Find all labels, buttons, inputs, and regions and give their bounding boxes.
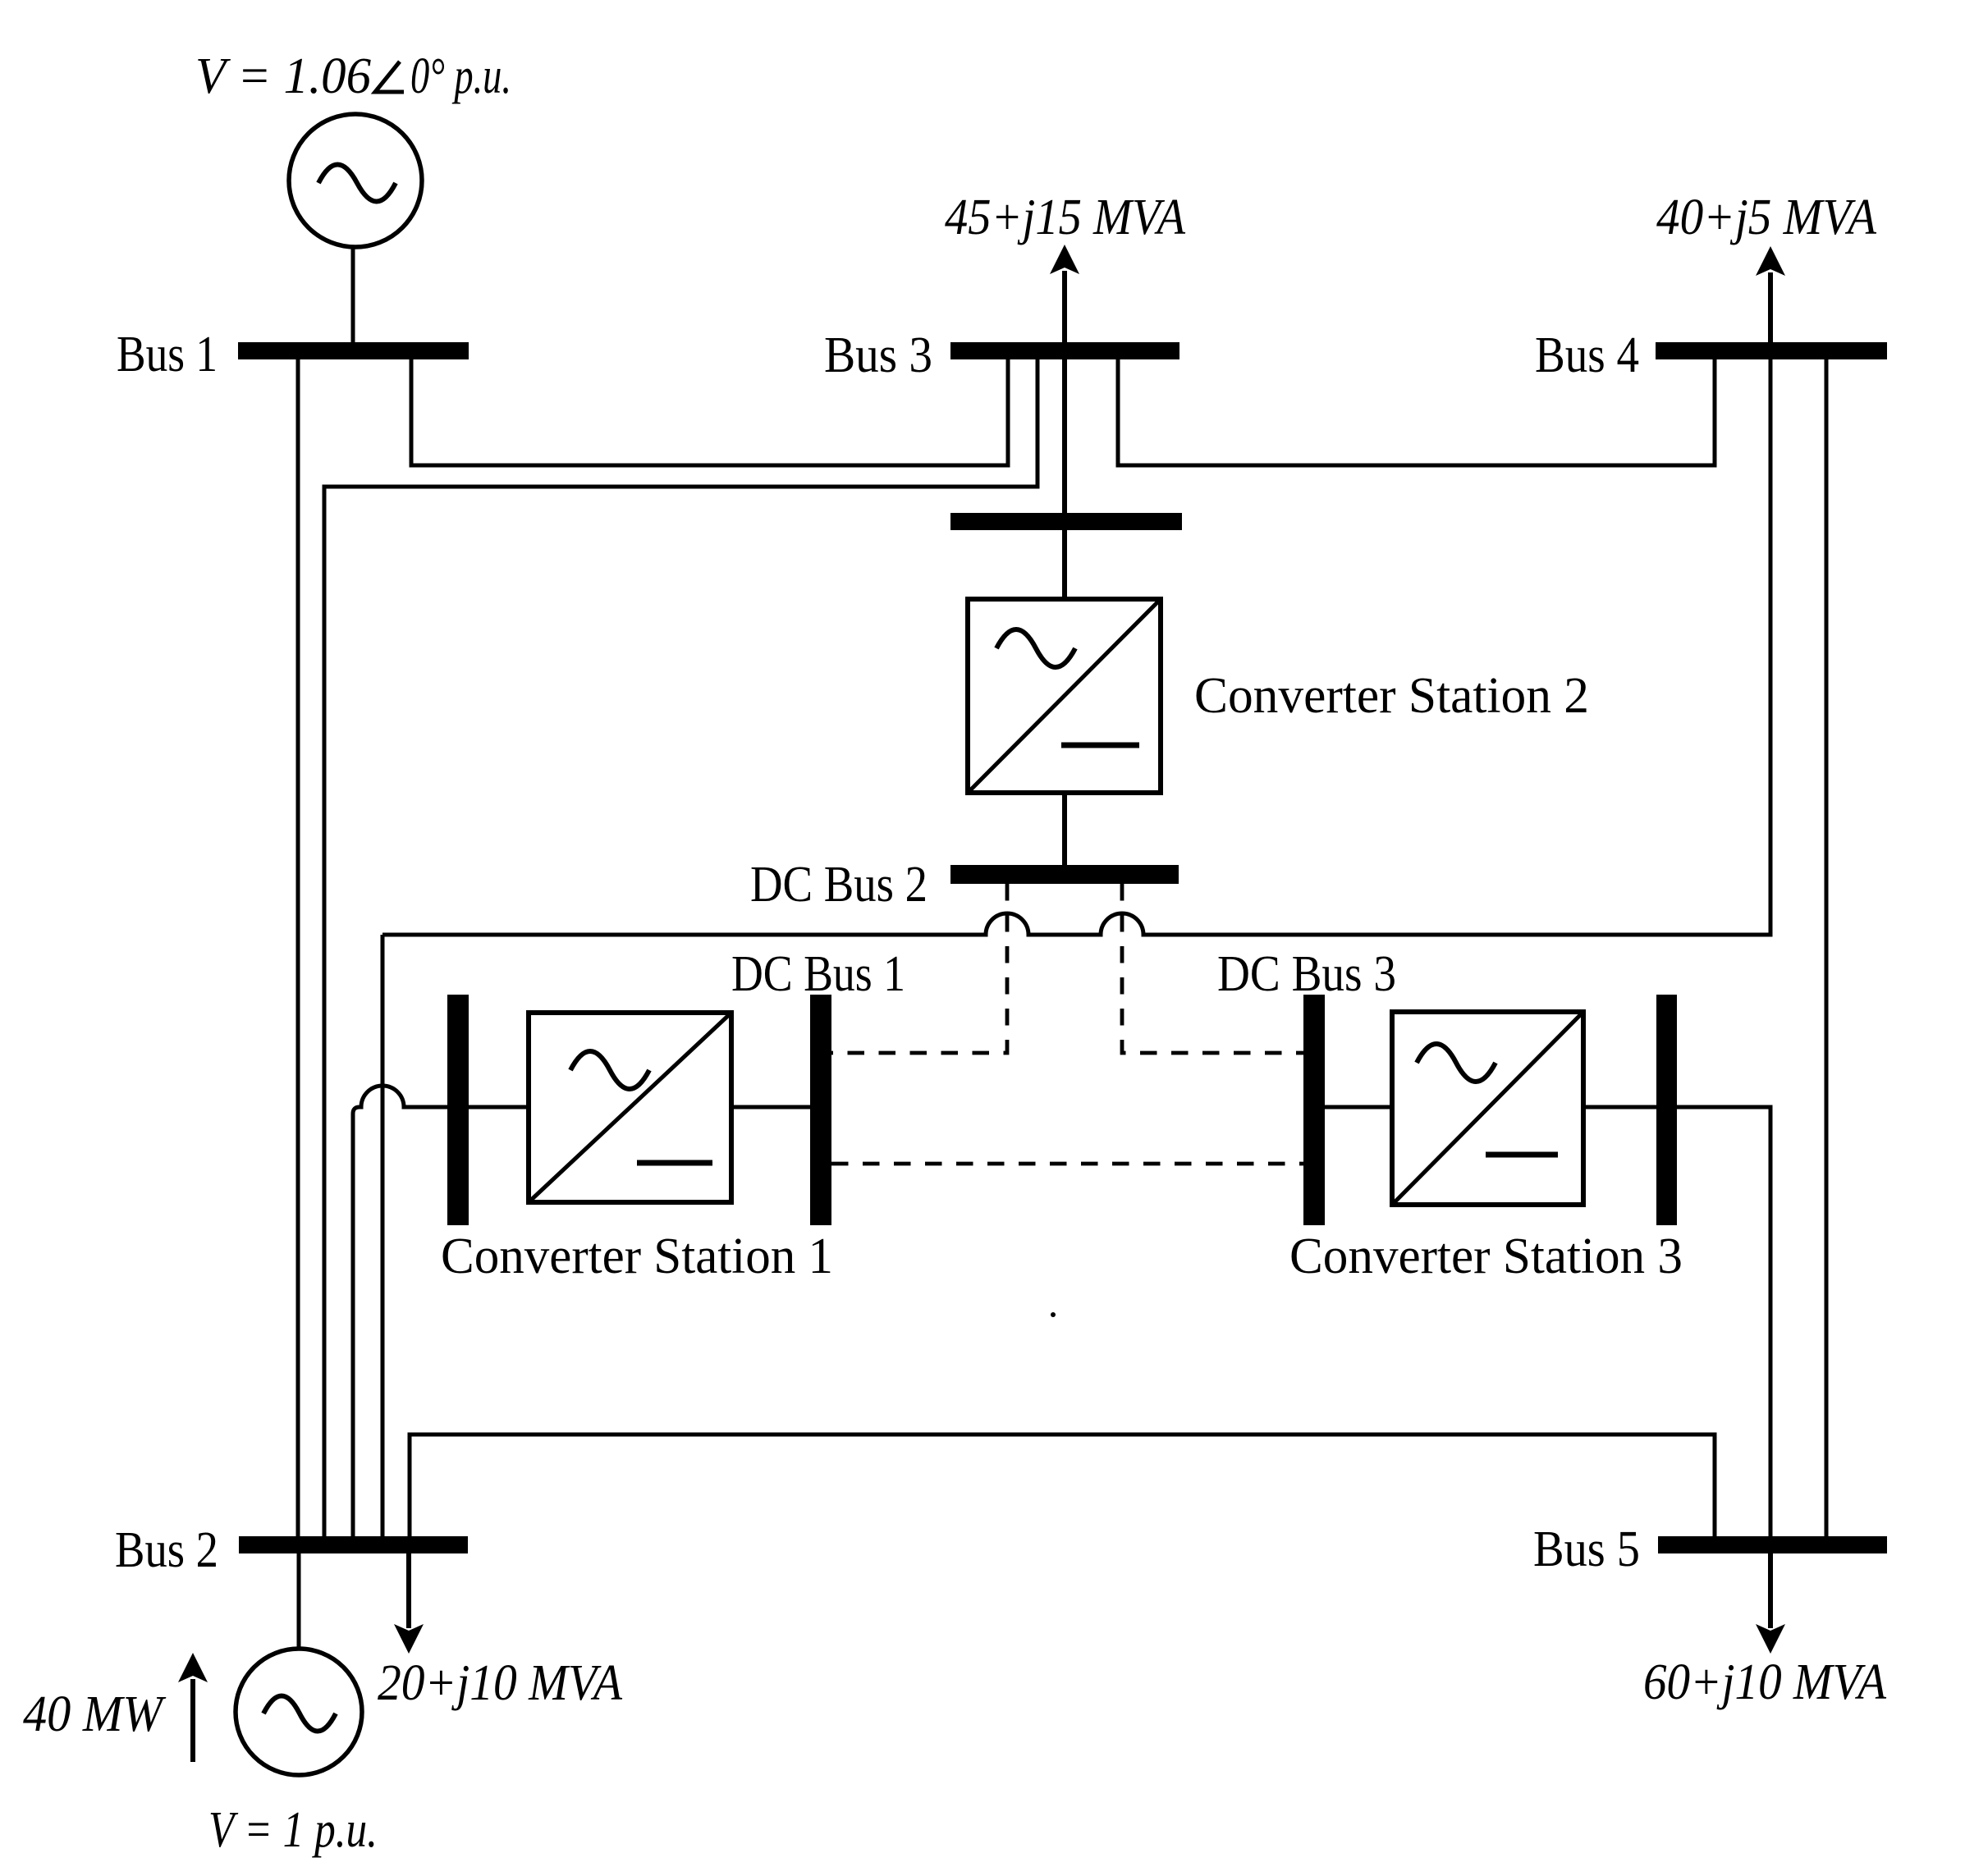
wire G2 40MW arrow shaft [190,1679,195,1762]
wire conv2 box to DC Bus 2 [1062,793,1067,865]
svg-text:40 MW: 40 MW [23,1686,167,1742]
arrowhead Bus4 load [1756,246,1785,276]
svg-text:20+j10 MVA: 20+j10 MVA [378,1655,623,1711]
angle symbol [375,62,404,92]
arrowhead Bus2 load [394,1624,424,1654]
bus DC Bus 1 [810,995,831,1225]
wire conv3 box to AC bar [1583,1105,1656,1110]
wire Bus1-Bus3 [411,359,1008,465]
arrowhead Bus5 load [1756,1624,1785,1654]
converter station 1 box [529,1013,731,1202]
generator G1 stem [351,247,355,342]
bus converter station 2 AC filter bar [950,513,1182,530]
wire Bus4 load arrow shaft [1768,272,1773,342]
generator G2 stem [297,1553,301,1650]
svg-text:Bus 2: Bus 2 [115,1522,218,1578]
wire Bus2-Bus5 [410,1434,1715,1536]
dc link DCBus1-DCBus3 [831,1162,1303,1166]
bus Bus 4 [1656,342,1887,359]
svg-text:Converter Station 3: Converter Station 3 [1289,1229,1683,1284]
svg-text:V = 1.06: V = 1.06 [195,48,371,104]
wire Bus2-Bus4 with hops over DC links [382,359,1770,1536]
svg-text:V = 1 p.u.: V = 1 p.u. [208,1802,378,1858]
converter station 2 box [968,599,1161,793]
svg-text:40+j5 MVA: 40+j5 MVA [1656,190,1877,245]
generator G1 [289,114,422,247]
svg-text:Bus 5: Bus 5 [1533,1521,1640,1577]
wire conv1 AC bar to box [469,1105,529,1110]
bus Bus 5 [1658,1536,1887,1553]
wire Bus3 load / conv2 line [1062,271,1067,599]
bus Bus 3 [950,342,1179,359]
bus converter station 1 AC bar [447,995,469,1225]
wire conv1 box to DC Bus 1 [731,1105,810,1110]
bus Bus 2 [239,1536,468,1553]
generator G2 [236,1649,362,1775]
arrowheads [178,245,1785,1682]
dc link DCBus2-DCBus1 [831,884,1007,1053]
stray dot artifact [1051,1312,1056,1317]
svg-text:Converter Station 1: Converter Station 1 [441,1229,833,1284]
svg-text:45+j15 MVA: 45+j15 MVA [945,190,1186,245]
wire Bus1-Bus2 [296,359,300,1536]
bus bars [238,342,1887,1553]
bus converter station 3 AC bar [1656,995,1677,1225]
svg-text:0° p.u.: 0° p.u. [410,48,511,104]
converter station 3 box [1392,1012,1583,1205]
wire conv3 AC bar to Bus5 [1677,1107,1770,1536]
wire Bus4-Bus5 [1825,359,1829,1536]
svg-text:Bus 4: Bus 4 [1535,327,1639,383]
wire Bus2 load arrow shaft [406,1553,411,1628]
wire DC Bus 3 to conv3 box [1325,1105,1392,1110]
DC link dashed wires [831,884,1303,1164]
svg-text:DC Bus 2: DC Bus 2 [750,857,928,913]
wire Bus2 to Converter Station 1 AC side with hop [353,1086,447,1536]
svg-text:DC Bus 1: DC Bus 1 [731,946,905,1002]
svg-text:Bus 1: Bus 1 [117,327,218,382]
svg-text:Bus 3: Bus 3 [824,327,932,383]
bus DC Bus 2 [950,865,1179,884]
dc link DCBus2-DCBus3 [1122,884,1303,1053]
arrowhead G2 40MW [178,1653,208,1682]
svg-text:DC Bus 3: DC Bus 3 [1217,946,1396,1002]
svg-text:60+j10 MVA: 60+j10 MVA [1643,1654,1887,1710]
wire Bus3-Bus4 [1118,359,1715,465]
bus DC Bus 3 [1303,995,1325,1225]
wire Bus5 load arrow shaft [1768,1553,1773,1628]
bus Bus 1 [238,342,469,359]
arrowhead Bus3 load [1050,245,1079,274]
wire Bus2-Bus3 [324,359,1037,1536]
svg-text:Converter Station 2: Converter Station 2 [1194,668,1589,724]
